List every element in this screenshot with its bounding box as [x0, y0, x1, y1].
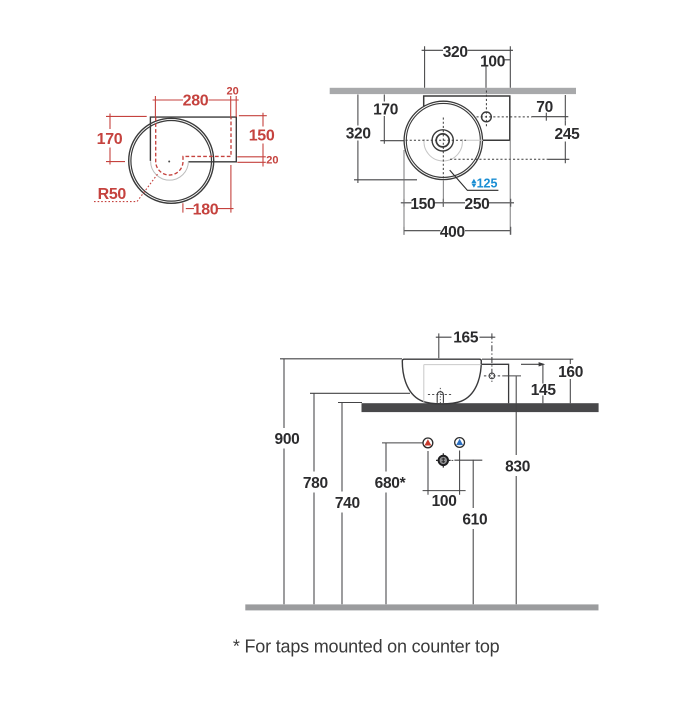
svg-text:170: 170	[373, 101, 398, 118]
svg-text:160: 160	[558, 364, 583, 381]
svg-text:20: 20	[226, 85, 238, 97]
svg-text:100: 100	[432, 493, 457, 510]
svg-text:125: 125	[477, 177, 498, 191]
svg-text:680*: 680*	[375, 475, 407, 492]
svg-text:400: 400	[440, 224, 465, 241]
svg-text:145: 145	[531, 382, 557, 399]
svg-text:250: 250	[465, 196, 490, 213]
svg-text:900: 900	[275, 431, 300, 448]
svg-text:20: 20	[266, 155, 278, 167]
svg-text:830: 830	[505, 458, 530, 475]
svg-text:320: 320	[443, 44, 468, 61]
svg-text:150: 150	[410, 196, 435, 213]
svg-text:170: 170	[97, 131, 123, 148]
svg-text:280: 280	[183, 93, 209, 110]
svg-text:610: 610	[462, 511, 487, 528]
svg-text:780: 780	[303, 475, 328, 492]
svg-text:150: 150	[249, 128, 275, 145]
svg-text:* For taps mounted on counter: * For taps mounted on counter top	[233, 637, 500, 657]
svg-text:180: 180	[193, 202, 219, 219]
svg-text:245: 245	[555, 126, 581, 143]
svg-text:100: 100	[480, 53, 505, 70]
svg-text:R50: R50	[98, 186, 127, 203]
svg-text:740: 740	[335, 495, 360, 512]
svg-text:165: 165	[453, 330, 479, 347]
svg-text:320: 320	[346, 126, 371, 143]
svg-text:70: 70	[536, 99, 553, 116]
